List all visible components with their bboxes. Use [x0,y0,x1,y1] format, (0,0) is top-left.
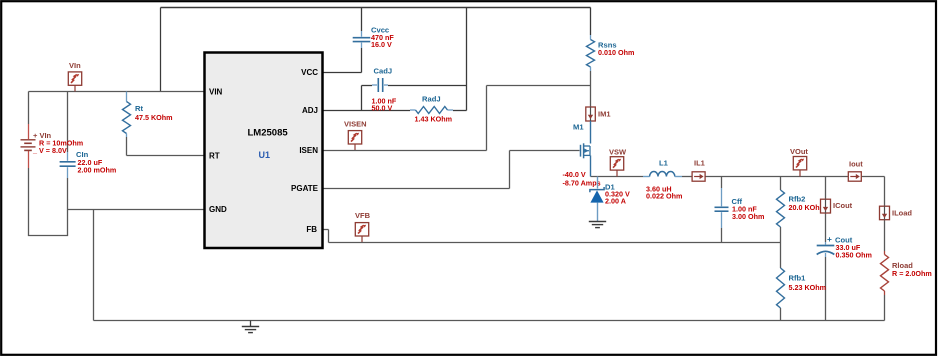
resistor Rfb2 [777,190,785,227]
wire RT net [127,137,205,156]
wire load branch [884,219,886,320]
svg-text:ISEN: ISEN [299,146,318,155]
resistor Radj [410,107,453,114]
probe VOut label [790,147,808,156]
probe VFB [355,223,368,242]
svg-text:M1: M1 [573,123,584,132]
wire top VIN rail [161,7,591,9]
battery V1 Vin [21,124,36,168]
wire Cin branch top [67,92,69,153]
capacitor Cin [60,152,76,178]
Rfb1 labels [789,274,827,293]
Rt labels [135,104,173,122]
svg-text:ICout: ICout [833,201,853,210]
svg-text:RT: RT [209,151,220,160]
wire ADJ net [323,110,467,112]
probe VIn label [69,61,81,70]
capacitor Cff [715,188,729,228]
wire ISEN net [323,86,591,151]
svg-text:2.00 mOhm: 2.00 mOhm [78,165,117,174]
Cout labels [827,234,872,259]
svg-text:U1: U1 [259,150,271,160]
switch node labels [563,170,601,187]
svg-text:VSW: VSW [609,147,627,156]
wire Rsns to IM1 [590,71,592,107]
inductor L1 [643,171,682,176]
wire battery top lead [28,92,30,125]
resistor Rt [123,92,131,138]
svg-text:LM25085: LM25085 [248,128,289,139]
probe VOut [793,157,806,177]
wire output net [705,176,848,178]
wire ground riser [93,210,95,321]
wire switch node [591,176,644,178]
transistor M1 PMOS [581,121,591,177]
wire Cadj left leg [362,86,373,111]
ground under D1 [589,222,606,228]
current probe IL1 [692,172,705,181]
current probe Iout [848,172,861,181]
svg-text:0.350 Ohm: 0.350 Ohm [836,250,872,259]
svg-text:L1: L1 [659,159,669,168]
probe VSW [610,157,623,177]
probe VISEN [348,131,361,150]
svg-text:VCC: VCC [301,68,318,77]
svg-text:IM1: IM1 [598,110,611,119]
probe VISEN label [344,119,367,128]
Cvcc labels [371,26,394,49]
resistor Rfb1 [777,268,785,308]
svg-text:47.5 KOhm: 47.5 KOhm [135,113,173,122]
svg-text:RadJ: RadJ [422,95,441,104]
svg-text:16.0 V: 16.0 V [371,40,392,49]
svg-text:ADJ: ADJ [302,106,318,115]
svg-text:3.00 Ohm: 3.00 Ohm [732,212,764,221]
capacitor Cvcc [353,31,371,48]
probe VSW label [609,147,627,156]
current probe IM1 [586,107,596,121]
svg-text:Rfb1: Rfb1 [789,274,807,283]
svg-text:CadJ: CadJ [374,67,393,76]
svg-text:5.23 KOhm: 5.23 KOhm [789,283,827,292]
Rsns labels [598,41,634,58]
Cadj labels [372,67,397,113]
svg-text:PGATE: PGATE [291,184,319,193]
wire FB net [323,230,781,243]
wire Rfb2 branch [780,177,782,243]
current probe ILoad [880,206,890,220]
Cff labels [732,197,765,221]
svg-text:VFB: VFB [355,211,371,220]
Iout label [849,160,863,169]
capacitor Cadj [372,78,388,92]
wire VIN input net [29,91,205,93]
M1 label [573,123,584,132]
Rfb2 labels [789,195,827,212]
IC U1 LM25085 [205,53,323,249]
wire L1 to IL1 [682,176,692,178]
svg-text:Rt: Rt [135,104,143,113]
IM1 label [598,110,611,119]
ground on bottom rail [242,321,259,333]
svg-text:FB: FB [306,225,317,234]
IL1 label [694,159,705,168]
svg-text:2.00 A: 2.00 A [605,197,626,206]
wire VCC net [323,72,362,74]
probe VIn [68,72,81,92]
svg-text:+: + [827,234,832,244]
probe VFB label [355,211,371,220]
wire Cin branch bottom [67,178,69,210]
wire GND net to IC [68,209,205,211]
wire Rfb1 branch [780,243,782,321]
Rload labels [892,261,932,278]
L1 labels [646,159,682,201]
wire PGATE net [323,151,580,189]
ILoad label [892,209,912,218]
capacitor Cout polarized [817,242,835,257]
wire battery bottom loop [28,168,68,236]
wire output net right [862,177,885,207]
resistor Rload [881,251,889,295]
ICout label [833,201,853,210]
svg-text:-8.70 Amps: -8.70 Amps [563,179,601,188]
svg-text:1.43 KOhm: 1.43 KOhm [415,115,453,124]
svg-text:0.010 Ohm: 0.010 Ohm [598,48,634,57]
wire Rsns top lead [590,8,592,36]
svg-text:VISEN: VISEN [344,119,367,128]
svg-text:ILoad: ILoad [892,209,912,218]
svg-text:R = 2.0Ohm: R = 2.0Ohm [892,269,932,278]
battery Vin labels [32,131,83,155]
svg-text:IL1: IL1 [694,159,705,168]
wire Cff branch [721,177,723,243]
svg-text:50.0 V: 50.0 V [372,104,393,113]
svg-text:_ V = 8.0V: _ V = 8.0V [32,146,67,155]
D1 labels [605,182,630,205]
svg-text:Iout: Iout [849,160,863,169]
wire bottom ground rail [94,320,885,322]
svg-text:VOut: VOut [790,147,808,156]
svg-text:VIN: VIN [209,87,223,96]
wire Cvcc riser [361,8,363,73]
wire Cout branch [825,177,827,321]
wire riser top-rail to VIN node [160,8,162,92]
svg-text:VIn: VIn [69,61,81,70]
resistor Rsns [587,35,595,71]
diode D1 [590,177,604,222]
Cin labels [76,150,116,174]
current probe ICout [821,199,831,213]
wire Cadj right leg [388,85,467,87]
svg-text:GND: GND [209,205,227,214]
Radj labels [415,95,453,124]
wire riser ADJ to top rail [466,8,468,111]
svg-text:0.022 Ohm: 0.022 Ohm [646,192,682,201]
